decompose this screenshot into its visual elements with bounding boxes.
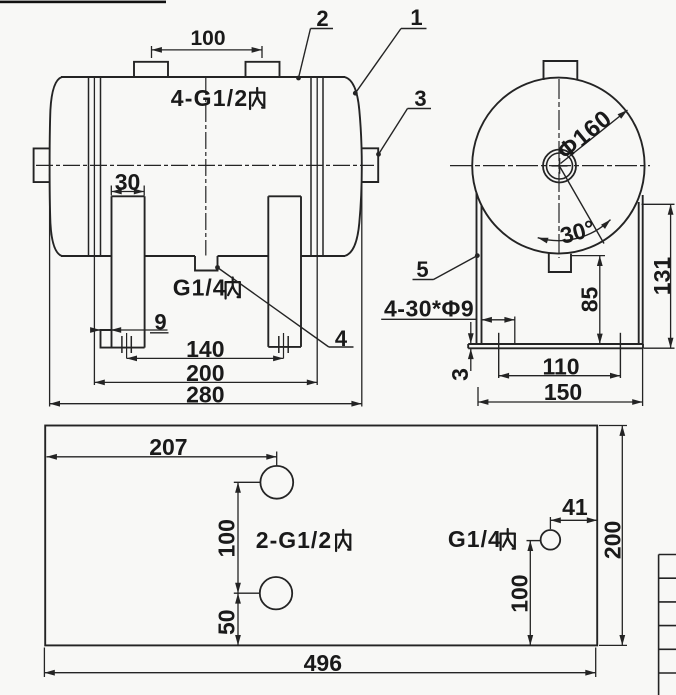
dimension 41 line <box>550 519 597 521</box>
svg-text:4: 4 <box>335 326 348 351</box>
development view G1/4 hole <box>541 530 561 550</box>
side view bottom port <box>549 254 571 273</box>
leader line for part 1 <box>355 29 401 94</box>
dimension 131 extension lines <box>642 203 675 205</box>
label 4-30*phi9 underline leader <box>381 318 476 320</box>
front view tank shell top line <box>61 76 345 78</box>
dimension 200 extension lines bottom view <box>599 425 627 427</box>
svg-text:207: 207 <box>149 434 187 460</box>
dimension 200 line <box>94 381 317 383</box>
dimension 30 slot line side view <box>482 319 515 321</box>
label 4-G1/2 CJK glyph <box>250 88 264 109</box>
side view vertical centerline <box>558 79 560 258</box>
dimension 30 extension ticks <box>110 186 112 196</box>
front view right side port <box>361 148 378 182</box>
development view upper G1/2 hole <box>260 466 293 499</box>
front view left foot slot hole edge lines <box>121 336 123 353</box>
dimension 85 extension line <box>572 255 605 257</box>
leader line for part 5 <box>434 256 478 280</box>
svg-text:200: 200 <box>600 521 626 559</box>
svg-text:G1/4: G1/4 <box>173 275 227 301</box>
dimension 131 line <box>670 204 672 348</box>
svg-text:131: 131 <box>649 257 675 296</box>
dimension 100 right line <box>529 541 531 646</box>
scan artifact black bar top-left <box>0 1 166 4</box>
front view right foot slot centerline / 140 extension <box>283 333 285 358</box>
svg-text:85: 85 <box>576 287 602 313</box>
front view left leg <box>111 196 113 347</box>
dimension 100 extension lines bottom view <box>234 481 260 483</box>
dimension 30 slot extension line <box>514 317 516 344</box>
side view base plate <box>468 343 643 345</box>
front view horizontal centerline <box>36 164 374 166</box>
dimension 200 line bottom view <box>621 426 623 646</box>
dimension 207 extension tick <box>276 452 278 466</box>
label 2-G1/2 CJK glyph <box>336 530 350 551</box>
side view base slot end line right / 110 extension <box>619 333 621 378</box>
svg-text:496: 496 <box>304 650 342 676</box>
svg-text:9: 9 <box>154 309 166 334</box>
side view tank end circle <box>472 78 644 254</box>
front view right middle seam / 200 extension line <box>316 77 318 385</box>
svg-text:1: 1 <box>410 5 422 30</box>
front view top port right (G1/2) <box>246 62 280 77</box>
side view base slot end line left / 110 extension <box>498 333 500 378</box>
svg-text:50: 50 <box>214 609 240 635</box>
front view left dished end cap <box>50 77 62 256</box>
front view left weld seam lines <box>88 77 90 256</box>
dimension 140 line <box>127 357 284 359</box>
svg-text:100: 100 <box>507 574 533 612</box>
side view bracket left side plate <box>476 193 478 344</box>
svg-text:30: 30 <box>115 169 141 195</box>
front view tank shell bottom line segments (interrupted by legs and drain port) <box>61 255 112 257</box>
front view bottom drain port (G1/4) <box>195 256 218 271</box>
front view vertical centerline <box>205 78 207 256</box>
svg-text:5: 5 <box>416 257 428 282</box>
svg-text:4-30*Φ9: 4-30*Φ9 <box>384 296 474 322</box>
front view left side port <box>34 148 51 182</box>
front view right dished end cap <box>345 77 362 256</box>
svg-text:41: 41 <box>562 494 588 520</box>
front view left middle seam / 200 extension line <box>93 77 95 385</box>
side view bracket right side plate <box>638 202 640 344</box>
leader line for part 4 <box>215 265 220 270</box>
front view top port left (G1/2) <box>134 62 168 77</box>
dimension 100 extension ticks <box>151 46 153 58</box>
dimension 50 line <box>237 593 239 645</box>
front view right foot slot hole edge lines <box>278 336 280 353</box>
dimension 207 line <box>47 456 277 458</box>
dimension 30deg radial line <box>560 167 604 244</box>
dimension 100 line bottom view <box>237 482 239 593</box>
side view hub outer circle <box>543 150 576 183</box>
dimension 280 extension lines <box>49 174 51 407</box>
dimension 85 line <box>599 256 601 344</box>
leader line for part 2 <box>299 29 311 79</box>
label G1/4 CJK glyph bottom view <box>501 529 515 550</box>
svg-text:110: 110 <box>542 353 579 379</box>
svg-text:150: 150 <box>544 379 582 405</box>
svg-text:140: 140 <box>186 336 224 362</box>
dimension 41 extension tick <box>549 517 551 529</box>
dimension 30deg arc with arrows <box>538 220 611 241</box>
dimension 30 line <box>111 191 144 193</box>
svg-text:3: 3 <box>447 368 473 381</box>
side view horizontal centerline <box>450 165 650 167</box>
dimension 280 line <box>50 403 362 405</box>
side view center cross <box>552 165 568 167</box>
leader from G1/4 label to hole <box>527 540 541 542</box>
development view plate outline <box>45 426 597 646</box>
dimension 110 line <box>499 375 621 377</box>
side view hub inner circle <box>547 153 573 179</box>
svg-text:4-G1/2: 4-G1/2 <box>171 85 249 111</box>
front view right weld seam lines <box>310 77 312 256</box>
title block table rows at right edge <box>658 555 660 695</box>
dimension 100 line <box>152 49 263 51</box>
svg-text:2-G1/2: 2-G1/2 <box>256 527 332 553</box>
development view lower G1/2 hole <box>260 577 292 609</box>
dimension 496 line <box>44 672 595 674</box>
dimension 150 extension lines <box>477 387 479 406</box>
dimension 496 extension lines <box>43 648 45 678</box>
svg-text:2: 2 <box>316 6 328 31</box>
front view left foot slot centerline / 140 extension <box>126 333 128 358</box>
side view top port <box>544 61 578 81</box>
svg-text:3: 3 <box>414 86 426 111</box>
dimension 3 arrows <box>470 322 472 344</box>
dimension 150 line <box>478 401 643 403</box>
label G1/4 CJK glyph front view <box>226 278 240 299</box>
svg-text:100: 100 <box>214 519 240 557</box>
svg-text:G1/4: G1/4 <box>448 526 502 552</box>
front view left foot plate <box>101 330 145 348</box>
dimension phi160 radial line <box>561 110 628 164</box>
dimension 9 line with outside arrows <box>92 329 168 331</box>
front view right leg <box>267 196 269 347</box>
leader line for part 3 <box>379 109 408 155</box>
svg-text:280: 280 <box>186 381 224 407</box>
svg-text:100: 100 <box>190 27 225 50</box>
